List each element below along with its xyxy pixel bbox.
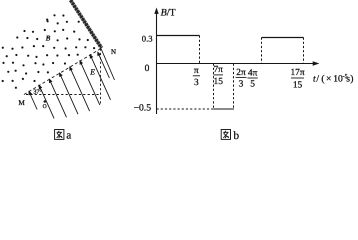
electric field arrows toward MN <box>29 49 115 119</box>
dashed horizontal leg from M <box>26 94 101 96</box>
svg-text:15: 15 <box>293 80 303 90</box>
pulse 1 top at 0.3 <box>157 35 200 37</box>
pulse 2 top <box>262 37 304 39</box>
svg-text:37°: 37° <box>33 90 42 96</box>
caption 图 a <box>55 130 64 140</box>
pulse 2 left edge dashed <box>261 38 263 64</box>
svg-text:E: E <box>89 67 95 76</box>
svg-text:t/(×10-5s): t/(×10-5s) <box>313 74 353 85</box>
svg-text:3: 3 <box>239 79 244 89</box>
negative pulse bottom (solid, B=-0.5) <box>214 108 235 110</box>
tick 17pi/15 <box>290 68 304 91</box>
minus 0.5 dashed level line <box>157 108 214 110</box>
svg-text:−0.5: −0.5 <box>134 103 152 114</box>
x axis <box>157 63 317 65</box>
pulse 1 falling edge dashed <box>199 36 201 64</box>
caption 图 b <box>221 130 230 140</box>
svg-text:O: O <box>43 104 47 110</box>
boundary line MN (dashed) <box>24 49 101 95</box>
svg-text:4π: 4π <box>248 68 258 78</box>
dashed vertical leg from N <box>100 49 102 105</box>
svg-text:15: 15 <box>214 77 224 87</box>
tick 7pi/15 <box>213 65 223 87</box>
tick 4pi/5 <box>248 68 258 89</box>
svg-text:0.3: 0.3 <box>142 34 153 44</box>
pulse 2 right edge dashed <box>303 38 305 64</box>
svg-text:B: B <box>46 33 51 42</box>
negative pulse right edge dashed <box>233 64 235 110</box>
svg-text:a: a <box>66 130 71 141</box>
svg-text:5: 5 <box>250 79 255 89</box>
line below N <box>101 49 115 81</box>
svg-text:b: b <box>233 130 239 141</box>
tick 2pi/3 <box>236 68 246 90</box>
figure a : magnetic field dot region (B out of page) <box>2 14 96 89</box>
tick pi/3 <box>194 66 199 88</box>
svg-text:7π: 7π <box>213 65 223 75</box>
svg-text:2π: 2π <box>236 68 246 78</box>
svg-text:π: π <box>194 66 199 76</box>
svg-text:N: N <box>111 48 116 56</box>
wall (hatched rail from top edge down to N) <box>71 0 102 48</box>
svg-text:3: 3 <box>194 78 199 88</box>
svg-text:0: 0 <box>145 64 150 74</box>
svg-text:M: M <box>18 99 25 107</box>
y axis <box>156 10 158 114</box>
point O <box>44 100 47 103</box>
negative pulse left edge dashed <box>213 64 215 110</box>
svg-text:17π: 17π <box>290 68 304 78</box>
svg-text:B/T: B/T <box>161 8 176 19</box>
